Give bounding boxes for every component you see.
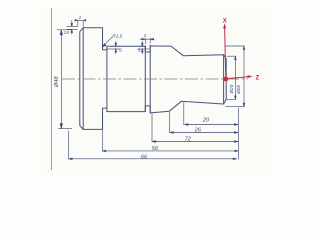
svg-text:66: 66	[141, 154, 148, 160]
svg-text:14: 14	[64, 30, 70, 35]
svg-text:72: 72	[185, 136, 192, 142]
svg-text:Ø20: Ø20	[229, 84, 234, 94]
svg-text:R1,5: R1,5	[112, 34, 122, 39]
svg-text:1: 1	[79, 15, 82, 20]
svg-text:5: 5	[138, 47, 141, 52]
svg-text:5: 5	[119, 48, 122, 53]
svg-text:26: 26	[194, 128, 202, 134]
svg-text:Ø28: Ø28	[236, 85, 241, 95]
svg-text:X: X	[223, 19, 227, 25]
svg-text:20: 20	[202, 118, 210, 124]
svg-text:Z: Z	[256, 76, 260, 82]
svg-text:2: 2	[143, 33, 147, 38]
svg-text:Ø48: Ø48	[54, 76, 60, 88]
svg-text:56: 56	[152, 146, 159, 152]
